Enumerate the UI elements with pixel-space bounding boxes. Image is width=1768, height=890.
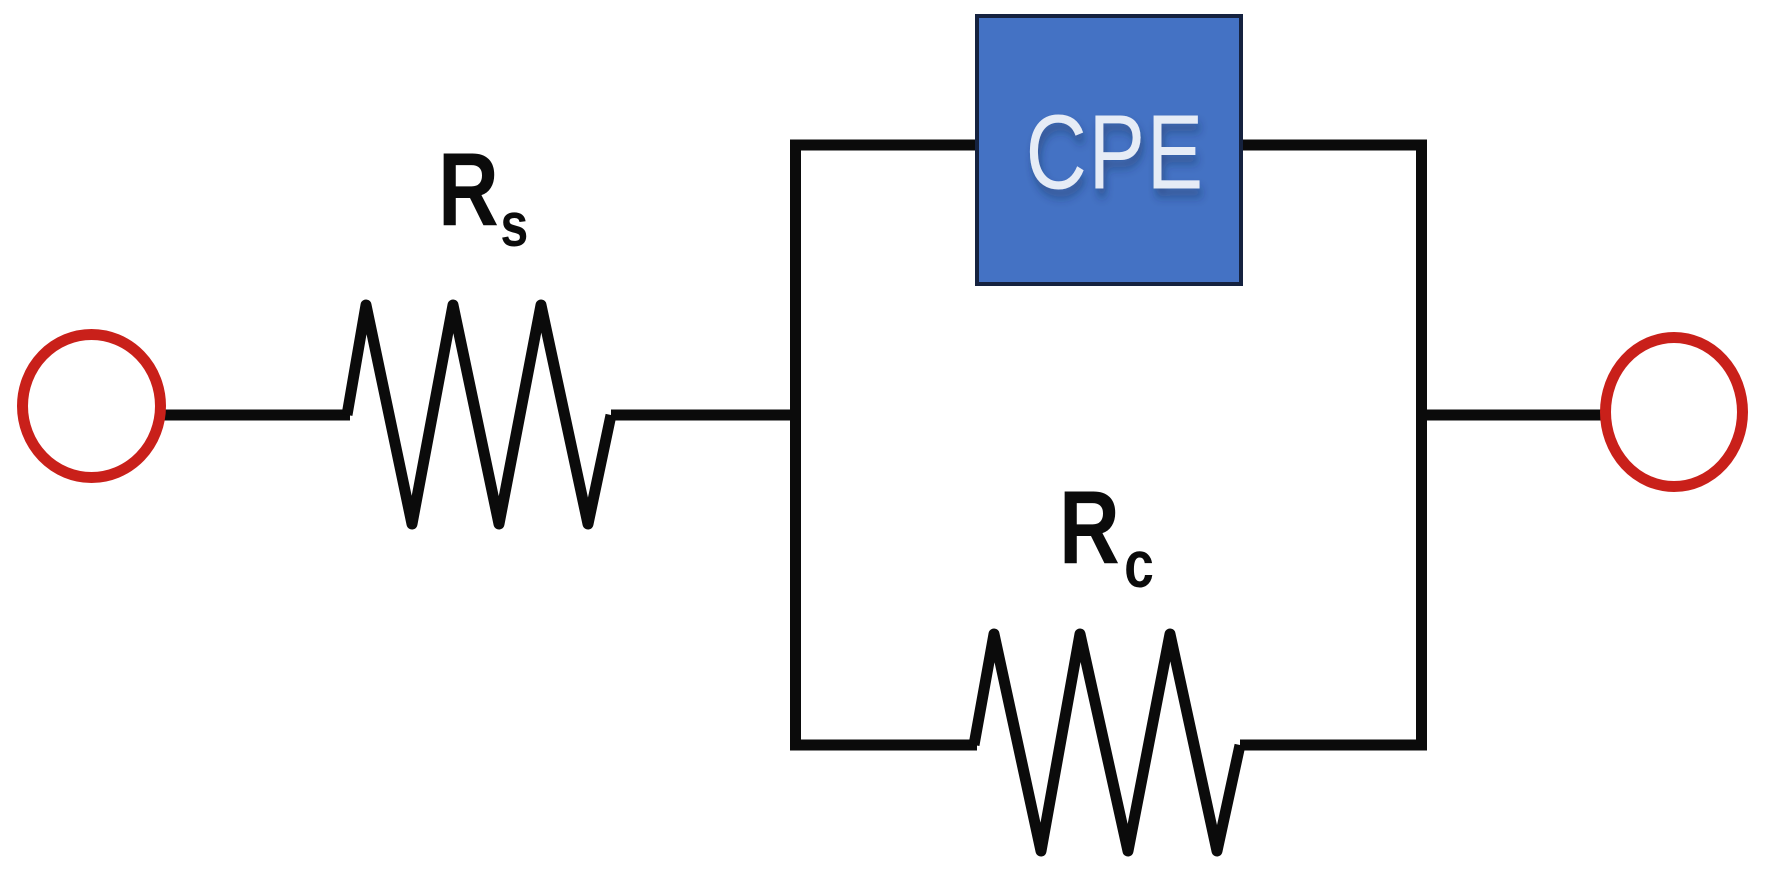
wire W1: left terminal to Rs xyxy=(164,410,350,421)
svg-text:c: c xyxy=(1124,528,1154,602)
svg-text:CPE: CPE xyxy=(1026,94,1205,212)
wire: bottom branch left segment xyxy=(790,740,977,751)
terminal T1 (left red circle) xyxy=(23,335,161,478)
CPE box (constant phase element) xyxy=(977,16,1241,284)
resistor Rs (zigzag) xyxy=(347,305,611,524)
node A: left vertical branch wire xyxy=(790,140,801,751)
svg-text:s: s xyxy=(500,190,528,259)
label Rc xyxy=(1059,470,1154,602)
wire: top branch horizontal xyxy=(790,140,1427,151)
wire W3: node B to right terminal xyxy=(1421,410,1601,421)
wire W2: Rs to parallel node A xyxy=(611,410,796,421)
resistor Rc (zigzag) xyxy=(974,634,1240,851)
label Rs xyxy=(438,132,528,260)
svg-text:R: R xyxy=(438,132,499,248)
terminal T2 (right red circle) xyxy=(1606,338,1743,487)
svg-text:R: R xyxy=(1059,470,1120,586)
wire: bottom branch right segment xyxy=(1240,740,1427,751)
node B: right vertical branch wire xyxy=(1416,140,1427,751)
